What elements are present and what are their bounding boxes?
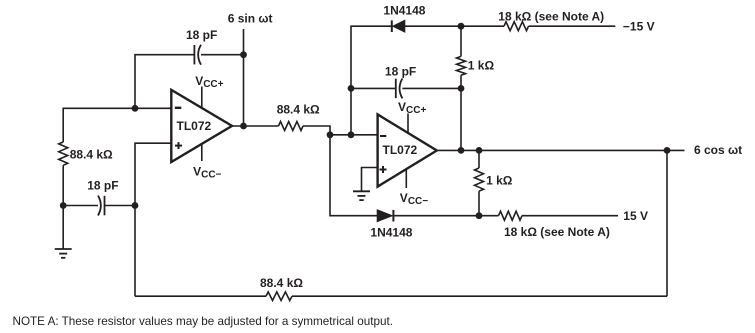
op-amp U1A plus sign [175,142,182,149]
op-amp U1B plus sign [380,166,387,173]
resistor R6 18 k (bottom, see Note A) [499,211,523,220]
resistor R2 88.4 k (between stages) [279,122,304,131]
diode D2 bar [392,210,394,222]
wire op-amp1 output to R2 [232,125,279,127]
wire noninverting input op-amp 1 [135,143,171,296]
junction jog bottom feedback [327,131,334,138]
resistor R5 1 k (lower) [475,168,484,191]
svg-text:18 pF: 18 pF [87,179,118,193]
svg-text:VCC+: VCC+ [195,74,223,90]
svg-text:6 cos ωt: 6 cos ωt [694,143,742,157]
wire from cap to 6sin node [201,54,244,56]
junction op-amp1 output [240,123,247,130]
svg-text:18 pF: 18 pF [186,28,217,42]
junction 6sin/cap [240,51,247,58]
wire cap to plus column [105,205,136,207]
wire top cap row stage 1 [135,55,194,109]
resistor R1 88.4 k left vertical [59,142,68,165]
junction 15V node [476,212,483,219]
junction cap plus column [132,202,139,209]
op-amp U1B Vcc- stub [405,169,407,188]
svg-text:18 kΩ (see Note A): 18 kΩ (see Note A) [498,9,604,23]
resistor R4 1 k (upper) [457,56,466,75]
junction inverting node 2 [348,131,355,138]
wire cap to 1k node [402,87,461,89]
junction cap row left stage2 [348,85,355,92]
resistor R7 88.4 k (bottom feedback) [266,292,292,301]
wire ground stem left [62,206,64,250]
svg-text:88.4 kΩ: 88.4 kΩ [260,276,303,290]
junction output/1k lower [476,147,483,154]
capacitor C2 18 pF (bottom left) curved plate [98,196,101,216]
wire diode to node [405,25,504,27]
svg-text:VCC+: VCC+ [398,100,426,116]
wire diode feedback bottom left column [330,135,377,216]
wire jog to inverting input op-amp 2 [330,134,378,136]
svg-text:VCC−: VCC− [193,165,221,181]
wire 18pF row stage 2 [351,87,396,89]
svg-text:1N4148: 1N4148 [383,4,425,18]
wire bottom cap row stage 1 [63,205,98,207]
wire resistor to 15V row [478,191,480,216]
wire output right column down [666,150,668,296]
wire top node down to resistor [460,26,462,56]
junction cap row right stage2 [458,85,465,92]
wire resistor to output row [460,75,462,150]
capacitor C1 18 pF (top) straight plate [193,45,195,64]
wire to -15V [529,25,616,27]
junction output/1k upper [458,147,465,154]
svg-text:88.4 kΩ: 88.4 kΩ [70,148,113,162]
junction output right column [664,147,671,154]
svg-text:TL072: TL072 [383,143,418,157]
capacitor C2 straight plate [104,196,106,216]
wire 6 sin stem [243,29,245,126]
op-amp U1A Vcc+ stub [201,87,203,109]
wire to 15V [522,215,618,217]
svg-text:1 kΩ: 1 kΩ [468,58,495,72]
op-amp U1A triangle [171,90,232,162]
capacitor C3 curved plate [400,78,403,98]
op-amp U1B Vcc+ stub [407,114,409,133]
wire inverting input row op-amp 1 [63,108,171,142]
svg-text:18 kΩ (see Note A): 18 kΩ (see Note A) [504,225,610,239]
wire op-amp2 output row [437,149,685,151]
svg-text:1 kΩ: 1 kΩ [486,174,513,188]
op-amp U1B minus sign [380,135,386,137]
wire resistor to ground node [62,165,64,205]
svg-text:TL072: TL072 [177,119,212,133]
diode D1 triangle [393,20,405,32]
junction ground cap left [60,202,67,209]
op-amp U1B triangle [378,114,437,186]
wire R2 to jog [303,126,330,135]
junction top node 18k/1k [458,23,465,30]
svg-text:VCC−: VCC− [400,191,428,207]
svg-text:18 pF: 18 pF [385,64,416,78]
svg-text:NOTE A: These resistor values: NOTE A: These resistor values may be adj… [13,315,393,328]
svg-text:15 V: 15 V [623,209,648,223]
op-amp U1A minus sign [175,107,182,109]
resistor R3 18 k (top, see Note A) [504,22,529,31]
op-amp U1A Vcc- stub [201,144,203,161]
wire resistor to right column [292,295,667,297]
diode D2 1N4148 (bottom) triangle [377,210,392,222]
wire feedback left column stage 2 [351,26,392,135]
capacitor C3 18 pF (stage 2) straight plate [395,79,397,98]
wire bottom feedback row [135,295,266,297]
capacitor C1 curved plate [198,45,201,65]
wire lower 1k column [478,150,480,168]
svg-text:88.4 kΩ: 88.4 kΩ [277,102,320,116]
ground symbol left [55,249,72,258]
diode D1 1N4148 (top) bar [391,20,393,32]
svg-text:6 sin ωt: 6 sin ωt [228,12,273,26]
svg-text:1N4148: 1N4148 [370,225,412,239]
junction inverting node 1 [132,105,139,112]
wire diode to 15V node [393,215,498,217]
svg-text:−15 V: −15 V [623,19,655,33]
wire noninverting input op-amp 2 to ground [362,168,378,192]
ground symbol stage 2 [353,191,370,200]
